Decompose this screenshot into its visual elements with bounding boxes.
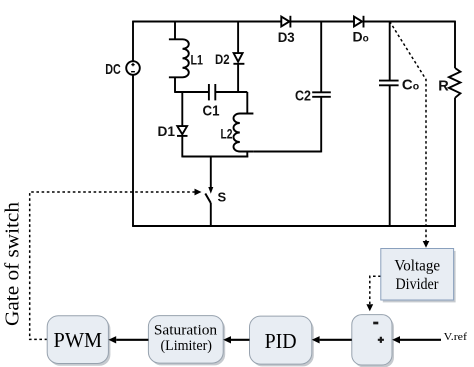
wire top rail right segment bbox=[364, 21, 456, 23]
svg-text:L2: L2 bbox=[221, 125, 233, 141]
svg-text:D3: D3 bbox=[278, 29, 295, 45]
diode Do bbox=[354, 16, 364, 28]
wire right branch upper bbox=[454, 21, 456, 68]
wire dashed voltage divider to summer bbox=[370, 276, 381, 304]
block PWM bbox=[47, 316, 108, 364]
svg-text:PID: PID bbox=[265, 329, 297, 353]
arrow summer to PID bbox=[312, 336, 352, 343]
wire dashed gate feedback bbox=[30, 192, 195, 339]
diode D1 bbox=[177, 92, 188, 157]
svg-text:D1: D1 bbox=[158, 123, 176, 139]
svg-text:Gate of switch: Gate of switch bbox=[1, 202, 23, 326]
wire L2 to C2 bottom bbox=[253, 151, 321, 153]
diode D2 bbox=[233, 22, 244, 93]
diode D3 bbox=[281, 16, 290, 28]
capacitor Co bbox=[379, 22, 399, 227]
arrow PID to Saturation bbox=[223, 336, 249, 343]
svg-text:Saturation: Saturation bbox=[154, 323, 218, 339]
wire mid horizontal right of C1 bbox=[215, 91, 247, 93]
wire left branch lower bbox=[132, 75, 134, 226]
wire top rail left segment bbox=[133, 21, 281, 23]
wire right branch lower bbox=[454, 98, 456, 227]
svg-text:C1: C1 bbox=[203, 103, 220, 120]
wire dashed output sense to voltage divider bbox=[390, 22, 426, 242]
svg-text:D2: D2 bbox=[215, 51, 230, 67]
wire left branch upper bbox=[132, 21, 134, 62]
wire top rail middle segment bbox=[290, 21, 354, 23]
switch S bbox=[205, 157, 213, 227]
svg-text:(Limiter): (Limiter) bbox=[160, 338, 212, 354]
svg-text:Voltage: Voltage bbox=[394, 258, 440, 275]
svg-text:C2: C2 bbox=[295, 88, 311, 104]
svg-text:L1: L1 bbox=[191, 51, 204, 67]
arrowhead into voltage divider bbox=[423, 241, 430, 248]
wire mid horizontal left of C1 bbox=[175, 91, 209, 93]
svg-text:S: S bbox=[218, 190, 227, 205]
capacitor C2 bbox=[312, 22, 331, 153]
source DC bbox=[126, 61, 140, 75]
block PID bbox=[250, 316, 312, 364]
svg-text:Divider: Divider bbox=[396, 276, 440, 293]
wire bottom rail bbox=[132, 225, 456, 227]
resistor R bbox=[449, 68, 461, 98]
inductor L1 bbox=[169, 22, 189, 93]
inductor L2 bbox=[234, 92, 254, 157]
svg-text:DC: DC bbox=[105, 61, 121, 78]
arrow Vref to summer bbox=[392, 336, 441, 343]
block summer bbox=[352, 315, 392, 365]
capacitor C1 bbox=[209, 84, 215, 100]
block shadows bbox=[49, 251, 455, 367]
arrow Saturation to PWM bbox=[108, 336, 148, 343]
block Saturation (Limiter) bbox=[148, 316, 223, 364]
block Voltage Divider bbox=[381, 249, 454, 301]
svg-text:V.ref: V.ref bbox=[444, 331, 468, 343]
wire loop bottom bbox=[182, 156, 248, 158]
svg-text:R: R bbox=[438, 78, 449, 94]
arrowhead gate to switch bbox=[195, 189, 202, 196]
svg-text:PWM: PWM bbox=[54, 328, 103, 352]
arrowhead into summer bbox=[366, 304, 373, 311]
